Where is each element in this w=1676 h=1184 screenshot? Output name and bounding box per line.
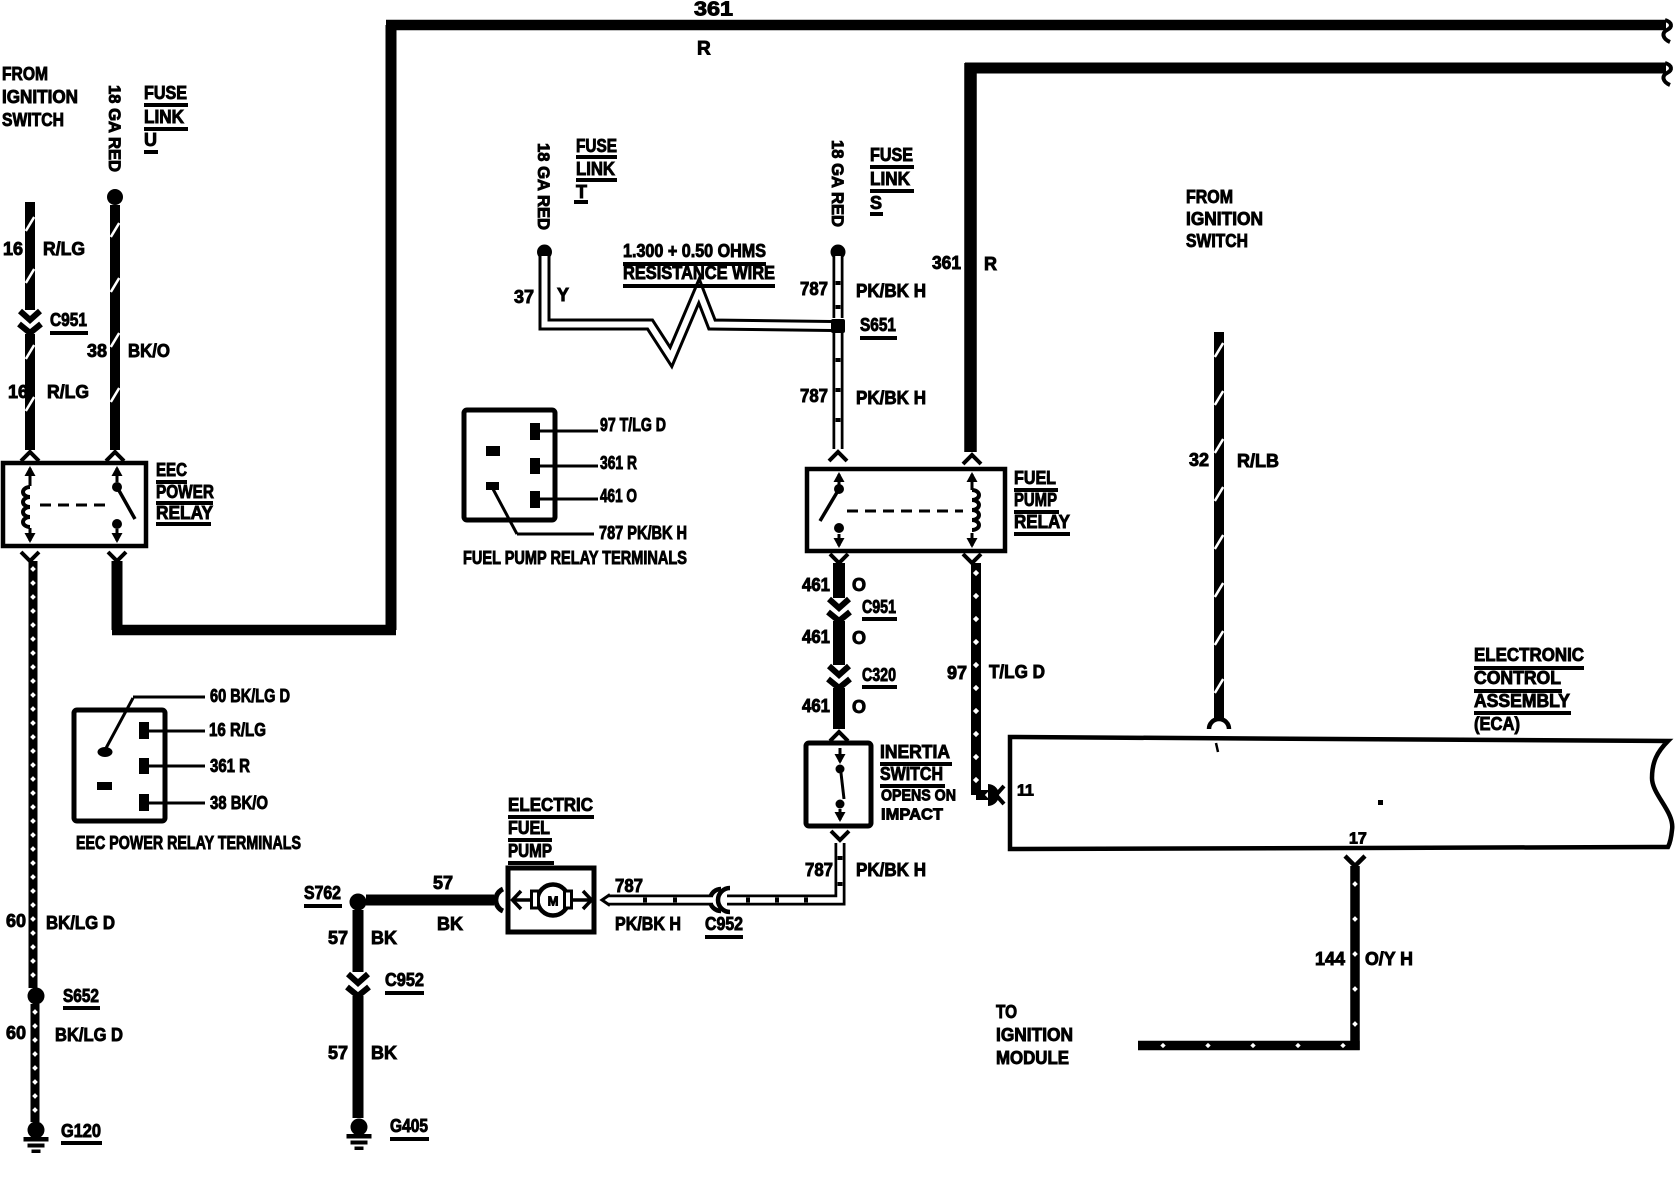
terminal pin (97 T/LG D) bbox=[530, 423, 540, 440]
svg-text:461: 461 bbox=[802, 696, 830, 716]
label BK (upper ground) bbox=[371, 928, 397, 948]
label 361 R (terminal) bbox=[210, 756, 250, 776]
terminal dot fuse link U bbox=[107, 189, 123, 205]
label R/LG (lower) bbox=[47, 382, 89, 402]
svg-text:M: M bbox=[548, 894, 559, 909]
label FUEL PUMP RELAY bbox=[1014, 468, 1070, 536]
label 32 bbox=[1189, 450, 1209, 470]
label 18 GA RED (fuse link S) bbox=[828, 140, 847, 227]
label 461 (3) bbox=[802, 696, 830, 716]
svg-text:361 R: 361 R bbox=[210, 756, 250, 776]
label O (1) bbox=[852, 575, 866, 595]
label 787 (pump) bbox=[615, 876, 643, 896]
svg-text:IGNITION: IGNITION bbox=[2, 87, 78, 107]
label G405 bbox=[390, 1116, 429, 1141]
wire 361 R main bus (top horizontal + left vertical drop) bbox=[386, 20, 1671, 630]
connector C952 (57 BK wire) bbox=[347, 974, 369, 996]
svg-text:ELECTRIC: ELECTRIC bbox=[508, 795, 593, 815]
svg-text:32: 32 bbox=[1189, 450, 1209, 470]
wire 38 BK/O bbox=[106, 205, 124, 461]
svg-text:FUSE: FUSE bbox=[576, 136, 617, 156]
label 60 BK/LG D (terminal) bbox=[210, 686, 290, 706]
wire 361 R second bus (to fuel pump relay) bbox=[965, 63, 1671, 452]
label EEC POWER RELAY bbox=[156, 460, 214, 526]
svg-text:S652: S652 bbox=[63, 986, 99, 1006]
label Y bbox=[557, 285, 569, 305]
svg-text:PUMP: PUMP bbox=[508, 841, 552, 861]
label FROM IGNITION SWITCH (right) bbox=[1186, 187, 1263, 251]
svg-text:S651: S651 bbox=[860, 315, 896, 335]
svg-text:T/LG D: T/LG D bbox=[989, 662, 1045, 682]
label PK/BK H (lower) bbox=[856, 388, 926, 408]
svg-text:T: T bbox=[576, 182, 587, 202]
svg-text:MODULE: MODULE bbox=[996, 1048, 1069, 1068]
svg-text:787: 787 bbox=[800, 279, 828, 299]
wire 787 PK/BK H (inertia switch to C952) bbox=[727, 831, 849, 903]
fuel pump inlet connector arc bbox=[496, 889, 503, 911]
svg-text:16 R/LG: 16 R/LG bbox=[209, 720, 266, 740]
svg-text:Y: Y bbox=[557, 285, 569, 305]
label S652 bbox=[63, 986, 100, 1010]
fuel pump relay coil bbox=[967, 472, 980, 548]
svg-text:C951: C951 bbox=[50, 310, 87, 330]
fuel pump motor arrows bbox=[513, 891, 592, 909]
wire 461 O (relay to C951) bbox=[830, 554, 848, 598]
label 97 T/LG D (terminal) bbox=[600, 415, 666, 435]
terminal dot fuse link T bbox=[537, 245, 552, 260]
leader line 97 T/LG D bbox=[540, 430, 598, 433]
connector C951 (461 wire) bbox=[828, 599, 850, 621]
svg-text:FUSE: FUSE bbox=[144, 83, 187, 103]
label RESISTANCE WIRE bbox=[623, 263, 775, 288]
label 17 (ECA pin) bbox=[1349, 831, 1367, 848]
label 60 (lower) bbox=[6, 1023, 26, 1043]
label FUSE LINK T bbox=[574, 136, 617, 204]
resistance wire (37 Y with zigzag) bbox=[545, 256, 833, 357]
svg-text:FUEL: FUEL bbox=[1014, 468, 1056, 488]
label C951 (461) bbox=[862, 597, 897, 621]
svg-text:361: 361 bbox=[932, 253, 961, 273]
wire 787 PK/BK H (S651 to fuel pump relay) bbox=[829, 333, 847, 461]
svg-text:RELAY: RELAY bbox=[156, 503, 213, 523]
svg-text:11: 11 bbox=[1017, 783, 1034, 800]
EEC relay coil bbox=[23, 466, 36, 543]
label 60 (upper) bbox=[6, 911, 26, 931]
svg-text:60: 60 bbox=[6, 1023, 26, 1043]
svg-text:CONTROL: CONTROL bbox=[1474, 668, 1561, 688]
wire 60 BK/LG D (EEC relay ground leg) bbox=[21, 552, 39, 988]
relay EEC power relay box bbox=[3, 463, 146, 546]
motor electric fuel pump box bbox=[508, 868, 594, 932]
svg-text:787: 787 bbox=[800, 386, 828, 406]
svg-text:787: 787 bbox=[615, 876, 643, 896]
terminal pin (38 BK/O) bbox=[139, 794, 149, 811]
svg-text:FUEL PUMP RELAY TERMINALS: FUEL PUMP RELAY TERMINALS bbox=[463, 548, 687, 568]
EEC relay dashed link bbox=[40, 504, 110, 507]
label 787 (inertia) bbox=[805, 860, 833, 880]
wire 144 O/Y H (ECA pin 17 to ignition module) bbox=[1138, 856, 1365, 1050]
terminal pin (16 R/LG) bbox=[139, 722, 149, 739]
connector EEC power relay terminals box bbox=[74, 710, 165, 821]
fuel pump relay dashed link bbox=[847, 510, 963, 513]
svg-text:G405: G405 bbox=[390, 1116, 428, 1136]
label 787 (upper) bbox=[800, 279, 828, 299]
svg-text:PK/BK H: PK/BK H bbox=[856, 860, 926, 880]
svg-text:97 T/LG D: 97 T/LG D bbox=[600, 415, 666, 435]
ground G120 bbox=[24, 1122, 49, 1154]
terminal pin (unused) bbox=[97, 782, 112, 790]
leader line 16 R/LG bbox=[149, 730, 205, 733]
svg-text:O: O bbox=[852, 575, 866, 595]
splice S762 bbox=[350, 894, 367, 911]
connector C951 (R/LG wire) bbox=[19, 311, 41, 333]
svg-text:S762: S762 bbox=[304, 883, 341, 903]
label S762 bbox=[304, 883, 342, 908]
svg-text:R/LG: R/LG bbox=[47, 382, 89, 402]
label BK/LG D (lower) bbox=[55, 1025, 123, 1045]
svg-text:BK/LG D: BK/LG D bbox=[55, 1025, 123, 1045]
svg-text:37: 37 bbox=[514, 287, 534, 307]
svg-text:O: O bbox=[852, 697, 866, 717]
label FROM IGNITION SWITCH (left) bbox=[2, 64, 78, 130]
ground G405 bbox=[347, 1119, 372, 1151]
label 361 R (fp terminal) bbox=[600, 453, 637, 473]
label C952 (57) bbox=[385, 970, 424, 995]
label 361 (fuel pump relay feed) bbox=[932, 253, 961, 273]
label FUSE LINK S bbox=[870, 145, 914, 216]
label C951 (left) bbox=[50, 310, 88, 335]
label TO IGNITION MODULE bbox=[996, 1002, 1073, 1068]
label 461 (2) bbox=[802, 627, 830, 647]
svg-text:C952: C952 bbox=[705, 914, 743, 934]
wire 461 O (C951 to C320) bbox=[833, 621, 845, 665]
label PK/BK H (upper) bbox=[856, 281, 926, 301]
label ELECTRIC FUEL PUMP bbox=[508, 795, 594, 865]
chevron at fuel pump relay coil top bbox=[963, 455, 981, 464]
label O (3) bbox=[852, 697, 866, 717]
wire 787 PK/BK H (fuse link S to S651) bbox=[836, 256, 841, 318]
fuel pump relay switch contact bbox=[820, 472, 845, 548]
svg-text:C951: C951 bbox=[862, 597, 896, 617]
svg-text:BK: BK bbox=[437, 914, 463, 934]
label 57 (pump wire) bbox=[433, 873, 453, 893]
svg-text:18 GA RED: 18 GA RED bbox=[534, 143, 553, 230]
svg-text:ASSEMBLY: ASSEMBLY bbox=[1474, 691, 1570, 711]
terminal pin (60 BK/LG D) bbox=[98, 747, 113, 757]
label 144 bbox=[1315, 949, 1345, 969]
label R (fuel pump relay feed) bbox=[984, 254, 997, 274]
wire 60 BK/LG D (below S652) bbox=[32, 1004, 38, 1122]
svg-text:S: S bbox=[870, 193, 882, 213]
svg-text:IGNITION: IGNITION bbox=[996, 1025, 1073, 1045]
label 16 R/LG (terminal) bbox=[209, 720, 266, 740]
svg-text:ELECTRONIC: ELECTRONIC bbox=[1474, 645, 1584, 665]
svg-text:BK: BK bbox=[371, 1043, 397, 1063]
label 787 PK/BK H (terminal) bbox=[599, 523, 687, 543]
terminal pin (relay coil) bbox=[486, 446, 500, 456]
label R/LG (upper) bbox=[43, 239, 85, 259]
relay fuel pump relay box bbox=[807, 469, 1005, 551]
label 97 bbox=[947, 663, 967, 683]
svg-text:R: R bbox=[984, 254, 997, 274]
label 1.300 + 0.50 OHMS bbox=[623, 241, 766, 266]
connector C320 bbox=[828, 666, 850, 688]
splice S652 bbox=[28, 988, 45, 1005]
label ELECTRONIC CONTROL ASSEMBLY (ECA) bbox=[1474, 645, 1584, 734]
svg-text:OPENS ON: OPENS ON bbox=[881, 788, 956, 805]
svg-text:O: O bbox=[852, 628, 866, 648]
svg-text:PUMP: PUMP bbox=[1014, 490, 1057, 510]
svg-text:FUEL: FUEL bbox=[508, 818, 550, 838]
svg-text:461: 461 bbox=[802, 627, 830, 647]
label T/LG D bbox=[989, 662, 1045, 682]
svg-text:38 BK/O: 38 BK/O bbox=[210, 793, 268, 813]
svg-text:57: 57 bbox=[328, 1043, 348, 1063]
svg-text:O/Y H: O/Y H bbox=[1365, 949, 1413, 969]
svg-text:SWITCH: SWITCH bbox=[2, 110, 64, 130]
svg-text:EEC: EEC bbox=[156, 460, 187, 480]
label BK/LG D (upper) bbox=[46, 913, 115, 933]
label INERTIA SWITCH bbox=[880, 742, 952, 788]
wire 57 BK (S762 to C952) bbox=[353, 910, 364, 972]
svg-text:SWITCH: SWITCH bbox=[880, 764, 943, 784]
stray dot inside ECA bbox=[1378, 800, 1383, 805]
svg-text:60 BK/LG D: 60 BK/LG D bbox=[210, 686, 290, 706]
label 461 (1) bbox=[802, 575, 830, 595]
leader line 361 R bbox=[149, 765, 205, 768]
label G120 bbox=[61, 1121, 102, 1145]
svg-text:787 PK/BK H: 787 PK/BK H bbox=[599, 523, 687, 543]
svg-text:361 R: 361 R bbox=[600, 453, 637, 473]
svg-text:POWER: POWER bbox=[156, 482, 214, 502]
svg-text:BK/LG D: BK/LG D bbox=[46, 913, 115, 933]
wire 97 T/LG D (relay to ECA pin 11) bbox=[963, 554, 993, 798]
label 18 GA RED (fuse link U) bbox=[105, 85, 124, 172]
svg-text:LINK: LINK bbox=[144, 107, 184, 127]
label S651 bbox=[860, 315, 897, 340]
svg-text:PK/BK H: PK/BK H bbox=[856, 388, 926, 408]
label 461 O (terminal) bbox=[600, 486, 637, 506]
switch inertia switch box bbox=[806, 743, 871, 826]
leader line 787 PK/BK H bbox=[493, 489, 594, 534]
terminal pin (361 R feed) bbox=[530, 458, 540, 474]
wire 787 PK/BK H (C952 to fuel pump) bbox=[602, 895, 713, 906]
label 38 BK/O (terminal) bbox=[210, 793, 268, 813]
svg-text:R: R bbox=[697, 39, 711, 60]
wire 57 BK (fuel pump feed) bbox=[366, 895, 494, 906]
svg-text:57: 57 bbox=[328, 928, 348, 948]
label FUSE LINK U bbox=[144, 83, 188, 154]
label 57 (upper ground) bbox=[328, 928, 348, 948]
svg-text:PK/BK H: PK/BK H bbox=[615, 914, 681, 934]
label 57 (lower ground) bbox=[328, 1043, 348, 1063]
label 38 bbox=[87, 341, 107, 361]
EEC relay switch contact bbox=[112, 466, 136, 543]
svg-text:IGNITION: IGNITION bbox=[1186, 209, 1263, 229]
svg-text:FUSE: FUSE bbox=[870, 145, 913, 165]
label 787 (lower) bbox=[800, 386, 828, 406]
label PK/BK H (pump) bbox=[615, 914, 681, 934]
wire EEC relay output to 361 bus (thick) bbox=[108, 552, 396, 630]
svg-text:R/LG: R/LG bbox=[43, 239, 85, 259]
leader line 361 R (terminal) bbox=[540, 465, 598, 468]
svg-text:1.300 + 0.50 OHMS: 1.300 + 0.50 OHMS bbox=[623, 241, 766, 261]
terminal pin (361 R) bbox=[139, 758, 149, 774]
svg-text:INERTIA: INERTIA bbox=[880, 742, 950, 762]
pin 11 connector bbox=[988, 784, 1004, 806]
wire 57 BK (C952 to G405) bbox=[353, 996, 364, 1118]
inertia switch contacts bbox=[835, 748, 846, 822]
svg-text:TO: TO bbox=[996, 1002, 1017, 1022]
svg-text:461: 461 bbox=[802, 575, 830, 595]
svg-text:FROM: FROM bbox=[2, 64, 48, 84]
svg-text:16: 16 bbox=[3, 239, 23, 259]
terminal dot fuse link S bbox=[831, 245, 846, 260]
connector C952 (787 wire) bbox=[710, 888, 730, 912]
svg-text:57: 57 bbox=[433, 873, 453, 893]
splice S651 bbox=[831, 319, 845, 333]
pin 1 tick (ECA) bbox=[1216, 743, 1218, 752]
label C952 (787) bbox=[705, 914, 743, 939]
wire 16 R/LG (from ignition switch) bbox=[21, 202, 39, 461]
label 18 GA RED (fuse link T) bbox=[534, 143, 553, 230]
terminal pin (787 out) bbox=[486, 482, 499, 490]
svg-text:60: 60 bbox=[6, 911, 26, 931]
label O/Y H bbox=[1365, 949, 1413, 969]
label BK/O bbox=[128, 341, 170, 361]
svg-text:787: 787 bbox=[805, 860, 833, 880]
svg-text:LINK: LINK bbox=[870, 169, 910, 189]
label EEC POWER RELAY TERMINALS bbox=[76, 833, 301, 853]
terminal pin (461 O) bbox=[530, 491, 540, 508]
svg-text:C952: C952 bbox=[385, 970, 424, 990]
label BK (lower ground) bbox=[371, 1043, 397, 1063]
leader line 461 O bbox=[540, 498, 598, 501]
svg-text:97: 97 bbox=[947, 663, 967, 683]
svg-text:C320: C320 bbox=[862, 665, 896, 685]
svg-text:SWITCH: SWITCH bbox=[1186, 231, 1248, 251]
svg-text:38: 38 bbox=[87, 341, 107, 361]
svg-text:16: 16 bbox=[8, 382, 28, 402]
svg-text:RELAY: RELAY bbox=[1014, 512, 1070, 532]
svg-text:PK/BK H: PK/BK H bbox=[856, 281, 926, 301]
connector fuel pump relay terminals box bbox=[464, 410, 555, 520]
svg-text:RESISTANCE WIRE: RESISTANCE WIRE bbox=[623, 263, 775, 283]
svg-text:144: 144 bbox=[1315, 949, 1345, 969]
leader line 38 BK/O bbox=[149, 802, 205, 805]
svg-text:LINK: LINK bbox=[576, 159, 615, 179]
svg-text:461 O: 461 O bbox=[600, 486, 637, 506]
fuel pump motor symbol bbox=[532, 885, 572, 916]
label R (top bus) bbox=[697, 39, 711, 60]
label R/LB bbox=[1237, 451, 1279, 471]
svg-text:BK/O: BK/O bbox=[128, 341, 170, 361]
svg-text:18 GA RED: 18 GA RED bbox=[105, 85, 124, 172]
svg-text:IMPACT: IMPACT bbox=[881, 807, 943, 824]
leader line 60 BK/LG D bbox=[105, 697, 205, 750]
svg-text:BK: BK bbox=[371, 928, 397, 948]
wire 461 O (C320 to inertia switch) bbox=[830, 688, 848, 741]
svg-text:R/LB: R/LB bbox=[1237, 451, 1279, 471]
wire 32 R/LB (from ignition switch to ECA) bbox=[1209, 332, 1229, 729]
label FUEL PUMP RELAY TERMINALS bbox=[463, 548, 687, 568]
label 16 (lower) bbox=[8, 382, 28, 402]
svg-text:G120: G120 bbox=[61, 1121, 101, 1141]
label PK/BK H (inertia) bbox=[856, 860, 926, 880]
label OPENS ON IMPACT bbox=[881, 788, 956, 824]
svg-text:17: 17 bbox=[1349, 831, 1367, 848]
label 16 (upper) bbox=[3, 239, 23, 259]
module ECA box (torn right edge) bbox=[1010, 737, 1672, 849]
svg-text:EEC POWER RELAY TERMINALS: EEC POWER RELAY TERMINALS bbox=[76, 833, 301, 853]
label 11 (ECA pin) bbox=[1017, 783, 1034, 800]
label BK (pump wire) bbox=[437, 914, 463, 934]
svg-text:(ECA): (ECA) bbox=[1474, 714, 1520, 734]
svg-text:FROM: FROM bbox=[1186, 187, 1233, 207]
label O (2) bbox=[852, 628, 866, 648]
label 361 (top bus) bbox=[694, 0, 733, 20]
svg-text:361: 361 bbox=[694, 0, 733, 20]
label C320 bbox=[862, 665, 897, 689]
svg-text:18 GA RED: 18 GA RED bbox=[828, 140, 847, 227]
svg-text:U: U bbox=[144, 130, 157, 150]
label 37 bbox=[514, 287, 534, 307]
